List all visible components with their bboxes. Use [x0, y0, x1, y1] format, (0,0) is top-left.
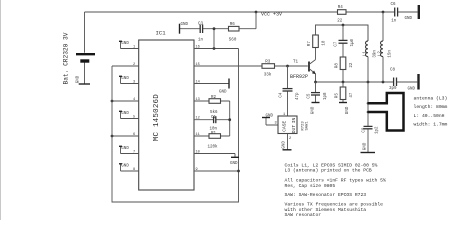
svg-text:13: 13 — [196, 98, 200, 102]
svg-text:GND: GND — [266, 114, 274, 118]
svg-text:47p: 47p — [296, 92, 300, 100]
svg-text:120k: 120k — [208, 145, 219, 150]
capacitor C5 1p8 — [307, 82, 328, 103]
svg-text:CASE: CASE — [282, 121, 288, 132]
svg-text:GND: GND — [121, 147, 129, 151]
ground SAW left — [262, 114, 274, 118]
ground pin3 — [119, 75, 122, 77]
ground C8 — [408, 74, 419, 92]
svg-text:GND: GND — [311, 106, 315, 114]
svg-text:15n: 15n — [388, 50, 392, 58]
inductor L1 39n — [363, 25, 377, 82]
svg-text:GND: GND — [408, 88, 416, 92]
svg-text:R2: R2 — [211, 96, 217, 100]
svg-text:R8: R8 — [336, 63, 340, 69]
resistor R8 22 — [336, 57, 354, 81]
svg-text:GND: GND — [121, 112, 129, 116]
svg-text:39n: 39n — [373, 50, 377, 58]
svg-text:BFR92P: BFR92P — [290, 74, 308, 80]
svg-text:GND: GND — [282, 141, 286, 149]
capacitor C6 1n — [391, 3, 398, 24]
ground SAW bottom — [282, 141, 291, 150]
svg-text:7: 7 — [133, 150, 135, 154]
inductor L2 15n — [378, 12, 392, 82]
svg-text:5k6: 5k6 — [210, 110, 218, 115]
resistor R7 10 — [308, 35, 326, 48]
svg-text:GND: GND — [219, 90, 227, 94]
svg-text:1n: 1n — [198, 39, 204, 43]
svg-text:R1: R1 — [211, 132, 217, 136]
svg-text:length: 80mm: length: 80mm — [414, 104, 448, 110]
wire left supply bus — [112, 49, 239, 203]
wire collector rail y25 — [316, 25, 369, 41]
capacitor C1 — [213, 116, 215, 123]
svg-text:GND: GND — [346, 106, 350, 114]
node L2 top junction — [382, 11, 385, 14]
resistor R5 47 — [336, 82, 354, 103]
pin 14 — [194, 83, 229, 85]
svg-text:OUT: OUT — [291, 125, 297, 134]
svg-text:MC 145026D: MC 145026D — [153, 94, 161, 141]
svg-text:R5: R5 — [336, 93, 340, 99]
svg-text:L2: L2 — [378, 51, 382, 57]
pin 15 — [194, 65, 262, 67]
svg-text:6: 6 — [133, 133, 135, 137]
IC U1 MC145026D box — [139, 40, 194, 190]
svg-text:14: 14 — [196, 80, 200, 84]
svg-text:C6: C6 — [391, 3, 397, 7]
svg-text:C9: C9 — [362, 127, 366, 133]
svg-text:33k: 33k — [264, 73, 272, 78]
antenna L3 loop — [368, 93, 404, 131]
svg-text:1p2: 1p2 — [376, 126, 380, 134]
pin 5 — [121, 111, 139, 118]
svg-text:GND: GND — [121, 165, 129, 169]
pin 13 — [194, 100, 230, 102]
svg-text:R4: R4 — [338, 6, 344, 10]
capacitor C4 47p — [279, 66, 300, 116]
svg-text:C4: C4 — [279, 92, 283, 98]
svg-text:R6: R6 — [230, 23, 236, 27]
ground pin7 — [119, 145, 122, 147]
notes text block — [285, 163, 386, 219]
pin 1 — [121, 41, 139, 48]
svg-text:R3: R3 — [265, 60, 271, 64]
svg-text:GND: GND — [181, 23, 189, 27]
svg-text:GND: GND — [363, 142, 367, 150]
resistor R6 560 — [229, 12, 257, 42]
ground battery — [77, 75, 91, 84]
wire Vcc rail — [85, 11, 418, 13]
svg-text:SAW resonator: SAW resonator — [285, 212, 322, 218]
resistor R4 22 — [337, 6, 346, 23]
svg-text:12: 12 — [196, 117, 200, 121]
capacitor C7 1n — [334, 25, 355, 57]
resistor R1 — [209, 134, 221, 139]
ground C9 — [361, 142, 376, 152]
svg-text:2: 2 — [133, 63, 135, 67]
pin 4 — [112, 100, 139, 102]
svg-text:1: 1 — [133, 45, 135, 49]
node Vcc +3V — [255, 11, 258, 14]
pin 2 — [112, 65, 139, 67]
svg-text:3: 3 — [133, 80, 135, 84]
page edge line — [0, 0, 2, 220]
svg-text:R7: R7 — [308, 41, 312, 47]
svg-text:11: 11 — [196, 133, 200, 137]
svg-text:C7: C7 — [334, 41, 338, 47]
svg-text:5: 5 — [133, 115, 135, 119]
svg-text:width: 1.7mm: width: 1.7mm — [414, 122, 448, 128]
svg-text:C5: C5 — [307, 93, 311, 99]
ground pin10 — [231, 156, 239, 158]
svg-text:SAW1: SAW1 — [305, 121, 309, 131]
svg-text:1n: 1n — [391, 20, 397, 24]
svg-text:GND: GND — [405, 17, 413, 21]
svg-text:C3: C3 — [198, 23, 204, 27]
wire SAW left to ground — [266, 118, 278, 126]
pin 6 — [112, 135, 139, 137]
svg-text:Various TX frequencies are pos: Various TX frequencies are possible — [285, 202, 384, 208]
wire R2/C1/R1 bus — [229, 101, 231, 136]
svg-text:9: 9 — [196, 168, 198, 172]
capacitor C3 1n — [180, 23, 229, 43]
ground C3 — [180, 23, 189, 34]
ground C5 — [311, 103, 319, 115]
wire SAW bottom to ground — [287, 134, 289, 150]
pin 8 — [121, 164, 139, 171]
svg-text:22: 22 — [350, 62, 354, 68]
pin 10 — [194, 154, 235, 158]
svg-text:10: 10 — [322, 40, 326, 46]
svg-text:with other Siemens Matsushita: with other Siemens Matsushita — [285, 207, 367, 213]
svg-text:GND: GND — [121, 77, 129, 81]
svg-text:16: 16 — [196, 45, 200, 49]
svg-text:GND: GND — [77, 75, 81, 83]
svg-text:Res, Cap size 0805: Res, Cap size 0805 — [285, 183, 336, 189]
ground pin8 — [119, 163, 122, 165]
svg-text:C8: C8 — [390, 69, 396, 73]
svg-text:1µ0: 1µ0 — [351, 38, 355, 46]
svg-text:47: 47 — [350, 92, 354, 98]
pin 9 — [194, 170, 239, 172]
svg-text:Bat. CR2320 3V: Bat. CR2320 3V — [63, 32, 70, 84]
transistor T1 BFR92P — [290, 48, 316, 83]
pin 11 — [194, 135, 230, 137]
svg-text:All capacitors <1nF RF types w: All capacitors <1nF RF types with 5% — [285, 178, 386, 184]
svg-text:IC1: IC1 — [156, 30, 167, 37]
resistor R2 — [209, 99, 221, 104]
wire emitter rail y81 — [316, 81, 394, 83]
svg-text:560: 560 — [229, 38, 237, 42]
svg-text:15: 15 — [196, 63, 200, 67]
svg-text:8: 8 — [133, 168, 135, 172]
svg-text:4: 4 — [133, 98, 135, 102]
svg-text:1p8: 1p8 — [324, 92, 328, 100]
svg-text:L: 40..50nH: L: 40..50nH — [414, 113, 445, 119]
wire antenna feed column — [367, 82, 369, 126]
svg-text:Coils L1, L2 EPCOS SIMID 02-: Coils L1, L2 EPCOS SIMID 02-00 5% — [285, 163, 378, 169]
ground R5 — [339, 103, 350, 115]
svg-text:SAW: SAW-Resonator EPCOS R723: SAW: SAW-Resonator EPCOS R723 — [285, 192, 367, 198]
svg-text:T1: T1 — [293, 60, 299, 64]
pin 12 — [194, 119, 230, 121]
SAW resonator box — [275, 113, 310, 141]
pin 16 — [194, 48, 239, 50]
svg-text:22: 22 — [337, 20, 343, 24]
svg-text:L3 (antenna) printed on the PC: L3 (antenna) printed on the PCB — [285, 168, 372, 174]
ground pin5 — [119, 110, 122, 112]
resistor R3 33k — [262, 60, 308, 77]
svg-text:L1: L1 — [363, 51, 367, 57]
battery BAT CR2320 — [63, 12, 96, 85]
pin 3 — [121, 76, 139, 83]
svg-text:Vcc +3V: Vcc +3V — [261, 12, 282, 18]
ground C6 — [405, 5, 419, 21]
ground pin1 — [119, 40, 122, 42]
svg-text:IN: IN — [291, 118, 297, 124]
svg-text:1: 1 — [283, 113, 285, 117]
ground pin14 — [228, 79, 230, 89]
svg-text:C1: C1 — [211, 116, 217, 120]
svg-text:3p9: 3p9 — [389, 87, 397, 91]
svg-text:GND: GND — [121, 42, 129, 46]
svg-text:antenna (L3): antenna (L3) — [414, 95, 448, 101]
wire C3 junction drop — [213, 29, 215, 49]
capacitor C9 1p2 — [362, 126, 379, 153]
svg-text:10: 10 — [196, 150, 200, 154]
svg-text:2: 2 — [289, 137, 291, 141]
svg-text:GND: GND — [230, 162, 238, 166]
capacitor C8 3p9 — [389, 69, 417, 92]
pin 7 — [121, 146, 139, 153]
svg-text:10n: 10n — [210, 128, 218, 132]
